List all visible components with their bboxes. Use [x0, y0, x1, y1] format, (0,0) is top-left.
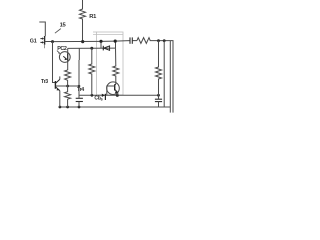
wire PC2 emitter down: [67, 61, 69, 70]
wire right cap stubs: [158, 95, 160, 99]
resistor on bus: [137, 38, 153, 44]
stub loop right: [115, 41, 117, 48]
resistor R1: [80, 0, 86, 42]
diode D2 on loop: [102, 46, 104, 51]
bottom ground rail: [60, 106, 171, 108]
wire node A horizontal: [56, 85, 79, 87]
transistor Tr4: [107, 82, 120, 95]
wire Tr3 emitter to rail: [59, 91, 61, 107]
svg-text:Cb6: Cb6: [94, 96, 103, 102]
wire bus right of capacitor: [132, 40, 137, 42]
resistor right branch: [156, 41, 162, 96]
wire Tr4 emitter stub: [117, 93, 119, 96]
node rail junction chain: [66, 106, 69, 109]
wire PC2 collector vertical upper: [78, 48, 80, 60]
resistor node A lower: [65, 86, 71, 107]
stub loop left: [100, 41, 102, 48]
svg-text:Tr3: Tr3: [41, 79, 48, 85]
main top bus wire: [53, 41, 131, 42]
resistor mid-left: [89, 48, 95, 95]
light arrows into PC2: [57, 51, 60, 54]
optocoupler PC2: [59, 52, 70, 63]
wire lower horizontal line: [68, 47, 116, 49]
node rail junction cap Cb: [78, 106, 81, 109]
wire cap Cb bottom stub: [78, 102, 80, 108]
svg-text:15: 15: [60, 23, 67, 29]
svg-text:R1: R1: [89, 14, 97, 20]
wire Tr3 base branch: [51, 40, 54, 43]
wire cap Cb top stub: [78, 86, 80, 98]
wire inner right vertical: [169, 41, 171, 113]
wire base row horizontal: [79, 94, 159, 96]
module box 15 (light outline): [93, 32, 123, 95]
wire Tr4 base lead: [107, 86, 115, 95]
svg-text:Tr4: Tr4: [77, 87, 84, 93]
node bus right resistor: [157, 39, 160, 42]
wire Tr3 collector stub: [59, 76, 61, 79]
svg-text:PC2: PC2: [57, 46, 67, 52]
generator G1 symbol: [40, 36, 44, 45]
wire branch resistor mid-left: [90, 47, 93, 50]
wire PC2 collector path: [67, 48, 69, 53]
node rail junction left: [59, 106, 62, 109]
resistor PC2 emitter upper: [65, 70, 71, 86]
wire bus right end to corner: [153, 41, 173, 113]
node bus far right vertical: [163, 39, 166, 42]
capacitor Cb: [76, 98, 83, 101]
label 15 leader line: [55, 29, 61, 34]
node junction bus/R1: [81, 40, 84, 43]
wire PC2 collector vertical lower: [78, 60, 80, 86]
wire far right vertical: [163, 41, 165, 107]
capacitor right branch: [155, 99, 162, 101]
generator G1 input wire: [39, 22, 45, 36]
capacitor on bus: [130, 37, 132, 43]
resistor Tr4 collector branch: [113, 48, 119, 84]
transistor Tr3: [55, 79, 59, 90]
diode D at Tr4 base: [102, 94, 105, 97]
svg-text:G1: G1: [30, 39, 37, 45]
